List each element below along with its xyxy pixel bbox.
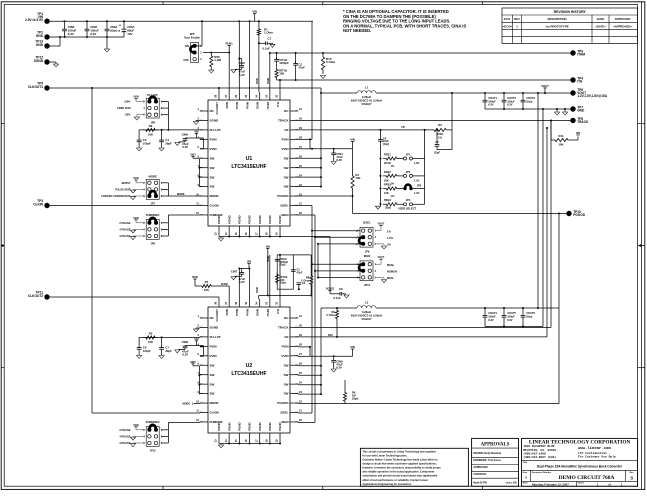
svg-text:REV: REV [514,17,520,21]
svg-text:SW: SW [284,156,289,160]
svg-text:affect circuit performance or: affect circuit performance or reliabilit… [362,478,427,482]
svg-text:NOMGN: NOMGN [387,270,397,274]
svg-text:PVIN: PVIN [235,309,239,316]
U1 pin 30 TRACK (right) [290,119,298,121]
svg-text:<APPROVED>: <APPROVED> [613,24,632,28]
U1 pin 2 SGND (left) [200,119,208,121]
svg-text:6.3V: 6.3V [239,73,245,77]
svg-text:SW: SW [284,175,289,179]
wire PVIN pin35 from VIN rail [249,21,251,92]
svg-text:6.3V: 6.3V [507,103,513,107]
svg-text:]: ] [192,402,193,406]
U2 pin 34 SVIN (top) [259,299,261,307]
svg-text:BSEL: BSEL [280,411,288,415]
svg-text:TRACK: TRACK [577,120,589,124]
capacitor COUT1 100uF 6.3V [484,93,486,100]
svg-text:Monday, February 12, 2007: Monday, February 12, 2007 [532,483,569,487]
svg-text:BSEL: BSEL [280,204,288,208]
svg-text:CHECKED:: CHECKED: [473,473,486,476]
svg-text:APPROVED: APPROVED [615,17,631,21]
resistor RITH2 10K (Opt) [276,272,279,285]
svg-text:3 PHASE: 3 PHASE [119,441,130,445]
svg-text:5VIN: 5VIN [133,177,139,180]
svg-text:1%: 1% [438,135,443,139]
wire TP11 to U2 pin38 CLKOUT [47,296,219,298]
U1 pin 38 CLKOUT (top) [218,92,220,100]
signal ground JP8 row3 [137,114,145,116]
svg-text:NOT NEEDED.: NOT NEEDED. [343,28,371,33]
svg-text:6.3V: 6.3V [239,280,245,284]
capacitor C2 47pF [295,52,297,54]
svg-text:RFB2: RFB2 [384,170,391,174]
U1 pin 11 CLKIN (left) [200,205,208,207]
U2 pin 14 PGND (bottom) [228,433,230,439]
capacitor C6 10uF (Opt) [380,137,382,139]
U2 pin 30 TRACK (right) [290,326,298,328]
svg-text:1.2V: 1.2V [414,191,420,195]
capacitor C7 39pF [161,337,163,347]
border zone ticks [162,2,164,5]
svg-text:Dual Phase 15A Monolithic Sync: Dual Phase 15A Monolithic Synchronous Bu… [537,465,623,469]
svg-text:10K: 10K [148,132,153,136]
resistor R1 1 Ohm [258,21,260,27]
test point TP9 ITHM [570,50,575,55]
U1 pin 15 PGND (bottom) [238,226,240,232]
svg-text:(Opt): (Opt) [280,281,286,285]
svg-text:RFB3: RFB3 [384,182,391,186]
svg-text:4 PHASE: 4 PHASE [119,227,130,231]
wire JP5 pin2 to RUN node [203,52,229,54]
svg-text:*: * [118,29,120,34]
border mid markers [2,244,4,246]
wire PVIN pin36 from VIN rail [238,21,240,92]
wire VIN rail down to U1 right PVIN pins [311,21,313,139]
U1 pin 28 PVIN (right) [290,138,298,140]
svg-text:1.5V: 1.5V [414,179,420,183]
capacitor CIN9 47uF 6.3V [333,356,335,360]
U1 pin 36 PVIN (top) [238,92,240,100]
U2 pin 33 ITHM (top) [269,299,271,307]
U1 pin 16 PGND (bottom) [249,226,251,232]
ground CIN4 [331,162,336,165]
svg-text:RUN2: RUN2 [221,283,228,286]
svg-text:ON: ON [185,44,189,48]
svg-text:MODE: MODE [148,175,157,179]
svg-text:VIN: VIN [194,129,198,133]
svg-text:Size: Size [523,472,528,474]
U1 pin 5 PVIN (left) [200,148,208,150]
net tack VIN at U2 comp [266,247,269,249]
svg-text:RFB4: RFB4 [384,198,391,202]
wire U2 PVIN right pins [298,346,310,348]
svg-text:Applications Engineering for a: Applications Engineering for assistance. [362,482,412,486]
test point TP8 TRACK [570,118,575,123]
svg-text:10K: 10K [355,176,360,180]
U2 pin 3 PLLLPF (left) [200,336,208,338]
U2 pin 21 BSEL (right) [290,412,298,414]
capacitor CIN7 47uF 6.3V with VIN tack [247,263,250,265]
svg-text:FREE RUN: FREE RUN [117,106,130,110]
svg-text:PVIN: PVIN [210,354,217,358]
svg-text:SW1: SW1 [190,153,196,157]
svg-text:(Opt): (Opt) [279,263,285,267]
svg-text:(408)434-0507 (FAX): (408)434-0507 (FAX) [523,455,556,459]
svg-text:3 PHASE: 3 PHASE [119,234,130,238]
resistor R5 10K at U2 PLLLPF [143,336,158,339]
svg-text:VISHAY: VISHAY [361,317,371,321]
wire VIN to U2 pins 4-5 [196,345,203,347]
svg-text:LTC3415EUHF: LTC3415EUHF [231,164,266,170]
signal ground JP10 [375,277,384,279]
svg-text:VIN: VIN [266,245,270,248]
resistor R2 10K [143,128,158,131]
svg-text:R11: R11 [559,134,564,138]
net tack and grounds JP9 [134,219,137,221]
net label VIN at R11 [576,134,579,136]
inductor L2 0.26uH [348,307,357,309]
wire U2 PGOOD pin22 to bus [298,403,559,405]
svg-text:39pF: 39pF [165,141,172,145]
resistor R9 0 Ohm [335,308,338,321]
svg-text:6.3V: 6.3V [507,318,513,322]
wire BSEL U1 pin21 [298,205,312,207]
svg-text:DESCRIPTION: DESCRIPTION [547,17,566,21]
U2 pin 4 PVIN (left) [200,345,208,347]
U1 pin 7 SW (left) [200,167,208,169]
svg-text:PVIN: PVIN [235,102,239,109]
U1 pin 29 FB (right) [290,129,298,131]
svg-text:10K: 10K [384,191,389,195]
capacitor C1 0.1uF [259,42,266,44]
svg-text:47pF: 47pF [298,66,305,70]
U1 pin 10 MODE (left) [200,195,208,197]
resistor R50 1.0M [210,53,213,71]
ground FB selector with (Opt) [380,204,382,205]
U2 pin 29 FB (right) [290,336,298,338]
svg-text:MODE: MODE [210,194,219,198]
test point TP7 GND [570,106,575,111]
svg-text:SW: SW [210,382,215,386]
net label RUN1 [228,45,231,47]
test point TP12 SGND [44,59,49,64]
svg-text:PLLLPF: PLLLPF [210,335,221,339]
svg-text:FB2: FB2 [328,334,333,337]
svg-text:Mask.05-PW: Mask.05-PW [473,482,487,484]
svg-text:6.3V: 6.3V [90,32,96,36]
svg-text:PGND: PGND [248,214,252,224]
svg-text:PGND: PGND [278,421,282,431]
svg-text:CIN7: CIN7 [231,269,238,273]
svg-text:SW: SW [210,373,215,377]
svg-text:JP2: JP2 [406,170,411,174]
test point TP6 VOUT [570,90,575,95]
svg-text:39pF: 39pF [165,349,172,353]
capacitor COUT5 100uF 6.3V [503,308,505,316]
wire MGN U1 pin20 [298,214,315,216]
wire MODE jumper rows to pin10 [161,182,168,184]
svg-text:VOUT: VOUT [541,84,549,88]
svg-text:ECO: ECO [504,17,511,21]
net label VIN at U2 right [351,348,354,350]
svg-text:JP6: JP6 [365,249,370,253]
svg-text:ITH: ITH [276,102,280,107]
wire TRACK line U1 pin30 to TP8 [298,119,573,121]
svg-text:10K: 10K [558,142,563,146]
svg-text:100pF: 100pF [143,349,151,353]
wire PLLLPF to U1 pin3 [161,101,168,103]
svg-text:CLKOUT1: CLKOUT1 [28,85,43,89]
svg-text:SVIN: SVIN [256,287,259,293]
U1 pin 37 RUN (top) [228,92,230,100]
svg-text:BSEL: BSEL [363,220,371,224]
svg-text:RUN: RUN [192,275,198,279]
U1 pin 24 SW (right) [290,176,298,178]
svg-text:PVIN: PVIN [281,147,288,151]
wire VOUT2 rail [376,307,559,309]
U2 pin 28 PVIN (right) [290,345,298,347]
svg-text:PGND: PGND [268,421,272,431]
ground C3 [137,148,142,151]
wire VOUT node down from SW [320,88,322,93]
svg-text:0.1uF: 0.1uF [333,296,341,300]
U1 pin 6 SW (left) [200,157,208,159]
wire bus VOUT-COUT4 vertical [537,93,539,308]
svg-text:CLKIN: CLKIN [33,202,43,206]
svg-text:6.3V: 6.3V [336,366,342,370]
test point TP1 VIN [44,19,49,24]
U1 pin 19 PGND (bottom) [279,226,281,232]
U2 pin 7 SW (left) [200,374,208,376]
svg-text:VOUT: VOUT [378,223,385,226]
wire TP13 to gnd rail [47,45,60,47]
net VIN stub at top [253,13,256,15]
U1 pin 12 PHMODE (left) [200,214,208,216]
svg-text:GND: GND [577,109,585,113]
U1 pin 9 SW (left) [200,186,208,188]
U1 pin 35 PVIN (top) [249,92,251,100]
capacitor C3 100pF [139,129,141,131]
svg-text:DATE: DATE [597,17,605,21]
svg-text:JP1: JP1 [406,152,411,156]
svg-text:5VIN: 5VIN [133,424,139,427]
svg-text:PGND: PGND [278,214,282,224]
resistor R10 0 Ohm [321,53,324,74]
test point TP10 PGOOD [566,211,571,216]
resistor R11 10K to VIN [550,120,552,140]
U1 pin 27 PVIN (right) [290,148,298,150]
svg-text:U1: U1 [246,156,253,162]
U2 pin 26 SW (right) [290,364,298,366]
U2 pin 12 PHMODE (left) [200,421,208,423]
U2 pin 35 PVIN (top) [249,299,251,307]
svg-text:Date:: Date: [523,482,529,485]
svg-text:<ECO#: <ECO# [503,24,513,28]
U1 pin 34 SVIN (top) [259,92,261,100]
svg-text:(Opt): (Opt) [526,315,532,319]
svg-text:PLLLPF: PLLLPF [210,128,221,132]
wire BSEL rows to bus [311,206,313,265]
svg-text:MODE: MODE [210,401,219,405]
svg-text:CLKOUT2: CLKOUT2 [28,294,43,298]
IC U1 LTC3415EUHF body [208,100,290,226]
wire PVIN right to VIN tack and CIN4 [310,148,353,150]
capacitor CIN4 47uF 6.3V [333,149,335,153]
net tack above JP7 [134,179,137,181]
svg-text:SW: SW [210,166,215,170]
resistor RFB4 (Opt) [380,203,382,205]
net label VIN at R4 [351,141,354,143]
svg-text:VIN: VIN [350,138,355,142]
svg-text:LTC3415EUHF: LTC3415EUHF [231,371,266,377]
capacitor C9 100pF [139,336,141,338]
title block doc number row [522,469,638,471]
wire TRACK2 horizontal to U2 pin30 [298,326,551,328]
ground U2 PGND [220,444,222,445]
capacitor C4 0.1uF [298,284,300,289]
svg-text:JP10: JP10 [364,283,371,287]
svg-text:ITH: ITH [276,309,280,314]
wire COUT gnd rail to TP7 [485,108,573,110]
svg-text:ITHM: ITHM [267,256,270,262]
svg-text:MODE: MODE [183,403,191,406]
svg-text:PVIN: PVIN [245,102,249,109]
svg-text:APPROVALS: APPROVALS [481,443,510,448]
U2 pin 32 ITH (top) [279,299,281,307]
ground U1 PGND [220,237,222,238]
svg-text:MILPITAS, CA. 95035: MILPITAS, CA. 95035 [523,449,556,452]
net label SW1 joining U1 left SW pins [191,156,194,158]
test point TP3 CLKIN [44,203,49,208]
test point TP2 GND [44,34,49,39]
svg-text:PGND: PGND [237,214,241,224]
ground C9 [137,356,142,359]
svg-text:PVIN: PVIN [210,344,217,348]
wire PGOOD U1 pin22 to TP10 [298,195,353,197]
svg-text:6.3V: 6.3V [488,318,494,322]
jumper JP3 1.2V with shunt installed [403,187,406,190]
ground R10 [320,76,325,79]
svg-text:www.linear.com: www.linear.com [578,446,611,451]
capacitor CIN1 100uF 6.3V [64,21,66,29]
revision history table [502,8,638,43]
svg-text:2 PHASE: 2 PHASE [119,428,130,432]
test point TP11 CLKOUT2 [44,294,49,299]
U2 pin 22 PGOOD (right) [290,402,298,404]
U2 pin 5 PVIN (left) [200,355,208,357]
svg-text:MGN+: MGN+ [387,263,395,267]
svg-text:SW: SW [284,363,289,367]
net label SGND2 and capacitor C8 0.1uF [328,290,331,292]
wire VIN to JP5 pin1 [201,21,203,46]
wire VIN rail [47,20,313,22]
capacitor CIN5 47uF 6.3V [238,58,240,60]
svg-text:1630 McCARTHY BLVD: 1630 McCARTHY BLVD [523,445,554,448]
ground CIN7 [231,277,236,280]
resistor RFB3 10K 1% [380,188,382,190]
right margin rule [641,2,643,490]
svg-text:R7: R7 [205,280,209,284]
svg-text:RFB1: RFB1 [384,152,391,156]
svg-text:(Opt): (Opt) [385,207,391,210]
U2 pin 38 CLKOUT (top) [218,299,220,307]
svg-text:(408)432-1900: (408)432-1900 [523,451,546,455]
wire R3 to VOUT rail [451,93,453,150]
net label SW2 joining U2 left SW pins [191,363,194,365]
svg-text:(Opt): (Opt) [526,99,532,103]
svg-text:SW: SW [284,382,289,386]
svg-text:PGND: PGND [237,421,241,431]
svg-text:1st PROTOTYPE: 1st PROTOTYPE [545,24,569,28]
svg-text:1.2V,1.5V,1.8V@15A: 1.2V,1.5V,1.8V@15A [577,94,608,98]
svg-text:6.3V: 6.3V [182,353,188,357]
svg-text:APPROVED:: APPROVED: [473,466,488,469]
capacitor C3 47pF [291,269,296,271]
capacitor C4 39pF [161,130,163,140]
svg-text:SW: SW [284,166,289,170]
signal ground U1 pin2 SGND [196,119,200,121]
wire U2 PGND bus [218,439,220,444]
svg-text:ENGINEER: Tom Gross: ENGINEER: Tom Gross [473,459,501,462]
svg-text:JP7: JP7 [150,202,155,206]
svg-text:6.3V: 6.3V [488,103,494,107]
svg-text:design a circuit that meets cu: design a circuit that meets customer-sup… [362,462,436,466]
svg-text:10K: 10K [279,72,284,76]
resistor R4 10K pullup [352,149,354,172]
svg-text:6.3V: 6.3V [68,32,74,36]
svg-text:VIN: VIN [350,345,355,349]
svg-text:TRACK: TRACK [278,326,289,330]
svg-text:CLKOUT: CLKOUT [215,102,219,115]
svg-text:SW2: SW2 [190,360,196,364]
U2 pin 37 RUN (top) [228,299,230,307]
ITH2 compensation network rail [259,294,312,296]
svg-text:PGND: PGND [217,214,221,224]
svg-text:VOUT: VOUT [378,256,385,259]
svg-text:Document Number: Document Number [532,471,552,474]
svg-text:10K: 10K [148,340,153,344]
wire input gnd rail [47,36,124,38]
U1 pin 1 NC (left) [200,110,208,112]
wire VOUT rail [376,92,573,94]
svg-text:L2: L2 [365,300,369,304]
svg-text:CIN8: CIN8 [182,340,189,344]
wire ITH line to TP4 [277,79,573,81]
svg-text:BURST: BURST [122,181,131,185]
IC U2 LTC3415EUHF body [208,307,290,433]
svg-text:GND: GND [36,43,44,47]
svg-text:5VIN: 5VIN [133,217,139,220]
svg-text:R3: R3 [438,123,442,127]
ground C7 [159,356,164,359]
svg-text:Title: Title [523,461,528,464]
svg-text:and reliable operation in the: and reliable operation in the actual app… [362,470,434,474]
svg-text:PGND: PGND [258,214,262,224]
wire JP right column common vertical [424,130,426,204]
svg-text:VISHAY: VISHAY [361,102,371,106]
inductor L1 0.26uH [321,92,357,94]
svg-text:PVIN: PVIN [281,344,288,348]
svg-text:-30%: -30% [124,113,131,117]
svg-text:MGN-: MGN- [387,276,394,280]
customer notice box [360,448,468,486]
svg-text:ITHM: ITHM [577,53,585,57]
svg-text:CLKIN: CLKIN [210,411,219,415]
svg-text:FORCED CONTINUOUS: FORCED CONTINUOUS [101,194,130,198]
svg-text:USER SELECT: USER SELECT [398,207,417,211]
svg-text:This circuit is proprietary to: This circuit is proprietary to Linear Te… [362,449,436,453]
wire CLKOUT1 from U1 pin38 to TP5 [218,88,220,92]
svg-text:OFF: OFF [183,58,189,62]
